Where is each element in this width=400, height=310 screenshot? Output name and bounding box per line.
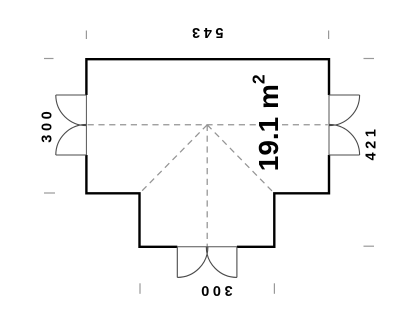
tick top left: [85, 31, 87, 40]
bottom door left leaf: [176, 247, 178, 278]
svg-text:19.1 m2: 19.1 m2: [249, 74, 285, 171]
right door bottom arc: [329, 124, 360, 155]
wall right lower section: [237, 155, 329, 247]
right door bottom leaf: [329, 154, 360, 156]
tick left upper: [44, 58, 54, 60]
left door top leaf: [56, 94, 87, 96]
right door top arc: [329, 95, 360, 126]
svg-text:543: 543: [189, 24, 224, 40]
bottom door right arc: [206, 247, 237, 278]
tick right lower: [364, 245, 375, 247]
tick left lower: [44, 192, 55, 194]
dashed centerline horizontal: [88, 124, 328, 126]
tick bottom right: [273, 283, 275, 294]
dashed hip right: [207, 125, 274, 193]
threshold bottom door: [177, 246, 237, 248]
svg-text:421: 421: [364, 126, 380, 161]
left door top arc: [56, 95, 87, 126]
tick right upper: [364, 58, 375, 60]
wall top section: [86, 59, 329, 95]
threshold right door: [328, 95, 330, 155]
dashed hip left: [140, 125, 207, 193]
tick bottom left: [139, 283, 141, 294]
bottom door left arc: [177, 247, 208, 278]
left door bottom leaf: [56, 154, 87, 156]
threshold left door: [85, 95, 87, 155]
tick top right: [328, 31, 330, 40]
right door top leaf: [329, 94, 360, 96]
svg-text:300: 300: [198, 282, 233, 298]
svg-text:300: 300: [40, 108, 56, 143]
bottom door right leaf: [236, 247, 238, 278]
dashed ridge vertical: [206, 125, 208, 252]
left door bottom arc: [56, 124, 87, 155]
wall left lower section: [86, 155, 177, 247]
